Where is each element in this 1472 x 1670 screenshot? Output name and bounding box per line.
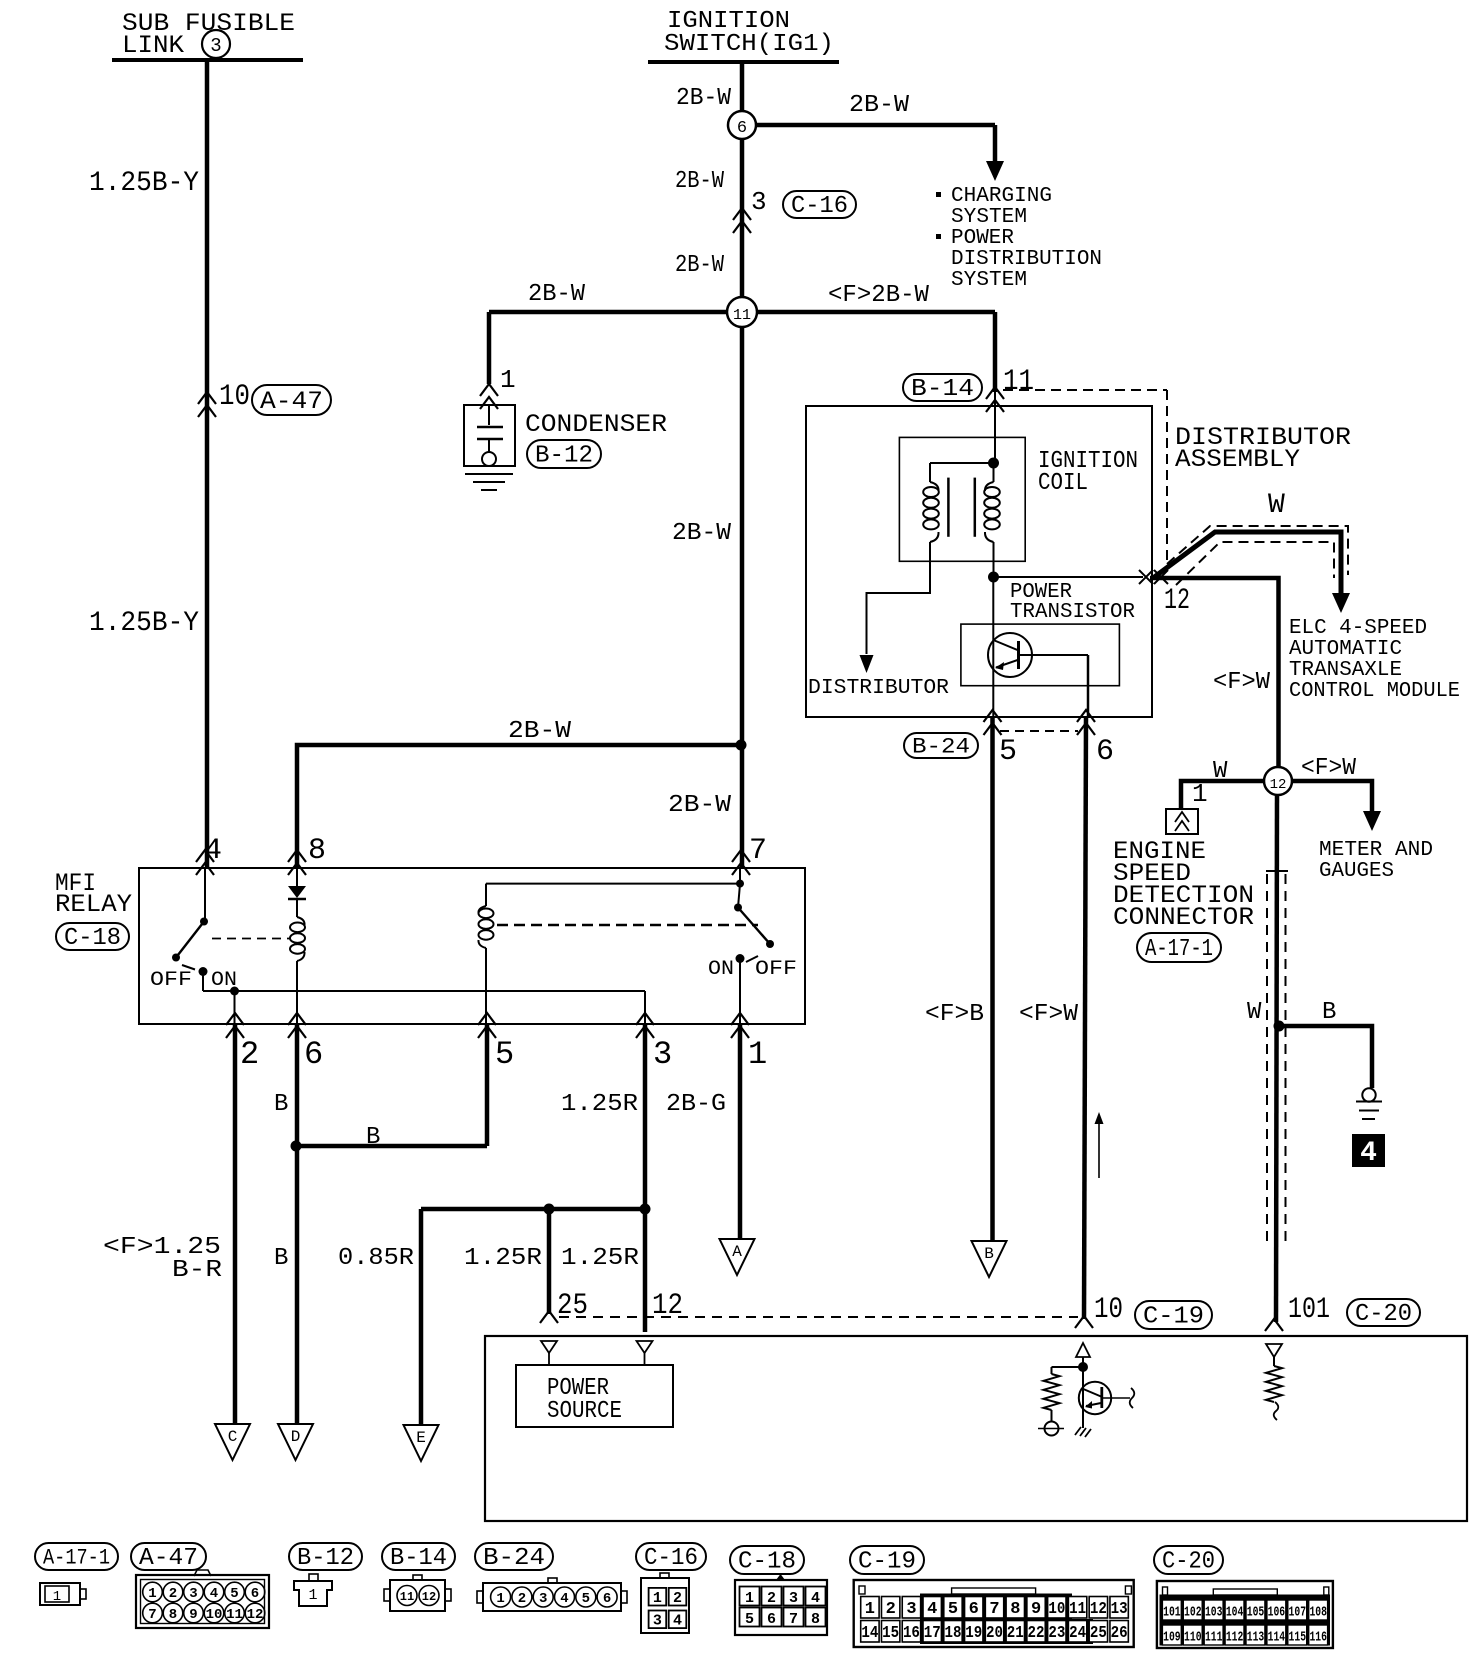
svg-text:6: 6 [969,1600,979,1619]
svg-text:7: 7 [989,1600,999,1619]
svg-text:5: 5 [948,1600,958,1619]
svg-text:12: 12 [1164,584,1190,618]
svg-text:8: 8 [1010,1600,1020,1619]
wire 2B-W branch from ignition wire to relay pin 8 [736,740,747,751]
wire 1.25B-Y from sub fusible link to MFI relay pin 4 [205,60,210,868]
ECU dashed boundary line [559,1316,1078,1318]
svg-text:106: 106 [1268,1605,1286,1621]
ECU box [485,1336,1467,1521]
svg-text:B-14: B-14 [911,376,974,403]
svg-text:METER AND: METER AND [1319,839,1433,862]
svg-text:1: 1 [53,1589,61,1605]
svg-text:B: B [274,1245,288,1272]
svg-text:C-18: C-18 [738,1549,796,1576]
svg-text:W: W [1268,490,1285,521]
svg-text:18: 18 [944,1624,961,1643]
svg-text:7: 7 [749,834,767,868]
svg-text:4: 4 [811,1590,820,1607]
svg-text:TRANSISTOR: TRANSISTOR [1010,601,1135,624]
ECU input connector marks above power source [541,1341,557,1353]
svg-text:6: 6 [603,1591,611,1607]
svg-text:AUTOMATIC: AUTOMATIC [1289,638,1402,661]
power feed bar: IGNITION SWITCH (IG1) [648,60,839,64]
svg-text:1: 1 [865,1600,875,1619]
wire 0.85R branch to ground E [421,1207,645,1212]
svg-text:11: 11 [733,307,751,324]
svg-text:2B-W: 2B-W [668,792,732,819]
distributor rotor arrow [860,655,874,673]
svg-text:6: 6 [304,1036,323,1073]
wire 2B-W from ignition switch down to MFI relay pin 7 [740,62,745,868]
svg-text:113: 113 [1247,1630,1265,1646]
svg-text:26: 26 [1111,1624,1128,1643]
svg-text:C-20: C-20 [1355,1301,1412,1328]
svg-text:5: 5 [999,735,1017,769]
branch B wire to ground 4 [1274,1021,1285,1032]
svg-text:2: 2 [673,1590,682,1607]
relay coil K2 [486,883,740,885]
inline connector pin 10 (A-47) on 1.25B-Y wire [198,392,216,404]
svg-text:12: 12 [247,1607,264,1623]
svg-text:OFF: OFF [755,958,797,981]
svg-text:1: 1 [653,1590,662,1607]
wire 2B-W to distributor assembly pin 11 (B-14) [993,312,998,392]
node: coil secondary to power transistor and pin 12 [988,572,999,583]
svg-text:15: 15 [882,1624,899,1643]
svg-text:B: B [274,1091,288,1118]
resistor R1 in ECU [1044,1374,1060,1410]
svg-text:2B-W: 2B-W [528,281,586,308]
svg-text:W: W [1247,999,1262,1026]
svg-text:2: 2 [240,1036,259,1073]
svg-text:ON: ON [708,958,734,981]
svg-text:A-47: A-47 [260,387,323,416]
svg-text:4: 4 [210,1586,218,1602]
note: charging system / power distribution system [936,192,941,197]
svg-text:102: 102 [1184,1605,1202,1621]
svg-text:2B-W: 2B-W [676,85,732,112]
svg-text:3: 3 [539,1591,547,1607]
svg-text:111: 111 [1205,1630,1223,1646]
svg-text:3: 3 [653,1036,672,1073]
svg-text:DISTRIBUTOR: DISTRIBUTOR [808,677,949,700]
branch <F>W to meter and gauges [1292,781,1372,812]
svg-text:2B-W: 2B-W [675,252,725,279]
wire W from junction 12 down to C-19 pin 10 -- wait this is pin 101 line [1276,795,1277,1322]
svg-text:21: 21 [1007,1624,1024,1643]
wire <F>W from pin 12 down to junction 12 [1150,578,1279,770]
connector face B-12 [289,1543,362,1570]
svg-text:11: 11 [1003,365,1034,399]
wire B from pin 5 joining pin 6 wire [485,1024,490,1146]
svg-text:0.85R: 0.85R [338,1245,414,1272]
wire W from pin 12 to ELC module [1153,532,1341,594]
svg-text:110: 110 [1184,1630,1202,1646]
ignition coil core [947,478,950,537]
wire B from pin 6 to ground D [295,1024,300,1424]
svg-text:5: 5 [230,1586,238,1602]
svg-text:2B-W: 2B-W [675,168,725,195]
svg-text:6: 6 [767,1611,776,1628]
power transistor Q1 [961,624,1120,686]
transistor Q2 in ECU [1082,1367,1084,1428]
svg-text:101: 101 [1163,1605,1181,1621]
svg-text:2B-W: 2B-W [508,718,572,745]
svg-text:20: 20 [986,1624,1003,1643]
svg-text:<F>W: <F>W [1019,1001,1079,1028]
engine speed detection connector (A-17-1) [1166,809,1198,834]
wire from SW1 ON contact to pins 2 and 3 [202,972,204,992]
ground symbol on B wire [1362,1088,1375,1101]
svg-text:OFF: OFF [150,969,192,992]
svg-text:6: 6 [1096,735,1114,769]
svg-text:<F>B: <F>B [925,1001,984,1028]
svg-text:6: 6 [251,1586,259,1602]
svg-text:CONTROL MODULE: CONTROL MODULE [1289,680,1460,703]
power feed bar: SUB FUSIBLE LINK 3 [112,58,303,62]
svg-text:SWITCH(IG1): SWITCH(IG1) [664,31,834,58]
svg-text:9: 9 [189,1607,197,1623]
ignition coil primary winding [930,462,994,464]
svg-text:B-R: B-R [172,1257,222,1284]
distributor assembly dashed boundary [1003,389,1167,391]
svg-text:1: 1 [748,1036,767,1073]
svg-text:11: 11 [400,1590,414,1604]
svg-text:115: 115 [1289,1630,1307,1646]
svg-text:E: E [416,1429,426,1447]
svg-text:2: 2 [518,1591,526,1607]
svg-text:8: 8 [169,1607,177,1623]
MFI relay pin 4 [196,850,214,862]
svg-text:SYSTEM: SYSTEM [951,206,1027,229]
svg-text:CHARGING: CHARGING [951,185,1052,208]
dashed harness channel around W wire [1266,870,1288,872]
svg-text:17: 17 [924,1624,941,1643]
wire <F>B from distributor pin 5 to ground B [990,717,995,1241]
svg-text:1.25R: 1.25R [561,1091,638,1118]
svg-text:1: 1 [500,365,516,395]
svg-text:C-20: C-20 [1162,1549,1215,1576]
relay armature dashed link right [497,924,758,926]
svg-text:2B-W: 2B-W [849,92,910,119]
svg-text:12: 12 [422,1590,436,1604]
svg-text:A-17-1: A-17-1 [1145,936,1213,963]
svg-text:3: 3 [789,1590,798,1607]
svg-text:1.25R: 1.25R [561,1245,639,1272]
svg-text:<F>W: <F>W [1213,669,1271,696]
svg-text:10: 10 [219,380,250,414]
svg-text:116: 116 [1309,1630,1327,1646]
ground under condenser [465,473,513,475]
base stub with curl [1102,1397,1130,1399]
wire <F>1.25B-R from pin 2 to ground C [233,1024,238,1424]
svg-text:SOURCE: SOURCE [547,1398,622,1425]
MFI relay pin 7 [732,850,750,862]
svg-text:3: 3 [210,35,221,57]
svg-text:DISTRIBUTION: DISTRIBUTION [951,248,1102,271]
svg-text:2: 2 [169,1586,177,1602]
svg-text:5: 5 [745,1611,754,1628]
svg-text:22: 22 [1028,1624,1045,1643]
svg-text:2: 2 [886,1600,896,1619]
svg-text:10: 10 [206,1607,223,1623]
connector face A-47 [131,1543,206,1570]
svg-text:10: 10 [1048,1600,1065,1619]
wire 2B-W branch to charging system [756,123,995,128]
svg-text:16: 16 [903,1624,920,1643]
relay armature dashed link left [212,938,290,940]
svg-text:POWER: POWER [951,227,1014,250]
MFI relay bottom pins 2 6 5 3 1 [226,1013,244,1025]
off-page reference 4 (black square) [1352,1134,1385,1167]
svg-text:B-12: B-12 [297,1545,354,1572]
svg-text:C-16: C-16 [644,1545,698,1572]
ECU internal circuit at pin 10: pull-up and transistor Q2 [1076,1343,1090,1357]
svg-text:COIL: COIL [1038,470,1088,497]
ECU internal resistor at pin 101 [1266,1344,1282,1357]
svg-text:1.25R: 1.25R [464,1245,542,1272]
svg-text:11: 11 [1069,1600,1086,1619]
power transistor base wire to pin 6 [1019,654,1089,656]
svg-text:CONDENSER: CONDENSER [525,410,667,439]
svg-text:2B-W: 2B-W [672,520,732,547]
svg-text:C-18: C-18 [64,925,121,952]
svg-text:105: 105 [1247,1605,1265,1621]
svg-text:B: B [366,1124,380,1151]
svg-text:A: A [732,1243,742,1261]
svg-text:4: 4 [927,1600,937,1619]
svg-text:3: 3 [189,1586,197,1602]
svg-text:23: 23 [1048,1624,1065,1643]
ground triangle D [278,1424,313,1460]
connector face B-14 [382,1543,455,1570]
svg-text:10: 10 [1094,1293,1123,1327]
svg-text:2: 2 [767,1590,776,1607]
svg-text:A-17-1: A-17-1 [43,1546,110,1571]
distributor inner unit box B-14/B-24 [806,406,1152,717]
ignition coil secondary winding [988,458,999,469]
connector face C-18 [730,1546,804,1574]
junction 12 [1264,767,1292,795]
svg-text:11: 11 [226,1607,243,1623]
svg-text:D: D [291,1428,301,1446]
svg-text:4: 4 [560,1591,568,1607]
svg-text:5: 5 [582,1591,590,1607]
ECU pin 101 (C-20) [1265,1319,1283,1331]
connector face C-20 [1154,1546,1223,1574]
svg-text:103: 103 [1205,1605,1223,1621]
wire 1.25R from pin 3 to ECU pin 12 [643,1024,648,1332]
wire to condenser pin 1 [487,312,492,384]
MFI relay pin 8 [288,850,306,862]
B-24 connector pins 5 and 6 leaving distributor unit [984,710,1002,722]
svg-text:8: 8 [308,834,326,868]
svg-text:3: 3 [751,187,767,217]
svg-text:<F>W: <F>W [1301,755,1357,782]
svg-text:14: 14 [861,1624,878,1643]
svg-text:24: 24 [1069,1624,1086,1643]
svg-text:CONNECTOR: CONNECTOR [1113,903,1254,932]
svg-text:A-47: A-47 [139,1545,198,1572]
svg-text:C-19: C-19 [858,1549,916,1576]
distributor pin 12 crossing marks [1139,570,1153,584]
ground triangle A [720,1239,755,1275]
svg-text:B-12: B-12 [535,443,593,470]
svg-text:4: 4 [204,834,222,868]
svg-text:1.25B-Y: 1.25B-Y [89,168,199,199]
MFI relay box (C-18) [139,868,805,1024]
ground triangle C [215,1424,250,1460]
wire <F>W from distributor pin 6 to ECU pin 10 [1084,717,1086,1319]
svg-text:107: 107 [1289,1605,1307,1621]
svg-text:1: 1 [308,1587,317,1604]
svg-text:ELC 4-SPEED: ELC 4-SPEED [1289,617,1427,640]
svg-text:2B-G: 2B-G [666,1091,726,1118]
svg-text:101: 101 [1288,1293,1330,1327]
wire from coil primary to distributor rotor [867,561,931,654]
svg-text:12: 12 [1090,1600,1107,1619]
svg-text:4: 4 [1360,1138,1377,1169]
svg-text:104: 104 [1226,1605,1244,1621]
svg-text:19: 19 [965,1624,982,1643]
svg-text:3: 3 [653,1613,662,1630]
svg-text:C: C [228,1428,238,1446]
relay switch SW1 (left, OFF/ON) [204,868,206,921]
svg-text:B-14: B-14 [390,1545,447,1572]
svg-text:7: 7 [789,1611,798,1628]
ground hatch under Q2 [1075,1427,1091,1437]
svg-text:C-19: C-19 [1143,1304,1204,1331]
svg-text:1: 1 [148,1586,156,1602]
svg-text:B: B [984,1245,994,1263]
svg-text:B-24: B-24 [912,735,970,760]
ground triangle B [972,1241,1007,1277]
junction 6 on ignition wire [728,111,756,139]
relay switch SW2 (right, ON/OFF) [739,868,741,884]
direction arrow on <F>W wire [1098,1122,1100,1178]
svg-text:B: B [1322,999,1336,1026]
wire 2B-G from pin 1 to ground A [738,1024,743,1239]
svg-text:B-24: B-24 [483,1545,545,1572]
connector face A-17-1 [35,1543,118,1570]
svg-text:9: 9 [1031,1600,1041,1619]
svg-text:1.25B-Y: 1.25B-Y [89,608,199,639]
svg-text:<F>2B-W: <F>2B-W [828,282,930,309]
svg-text:25: 25 [1090,1624,1107,1643]
svg-text:1: 1 [745,1590,754,1607]
terminal circle under resistor R1 [1045,1422,1059,1436]
ECU pin 10 (C-19) [1075,1316,1093,1328]
relay coil K1 with suppression diode [296,868,298,886]
svg-text:109: 109 [1163,1630,1181,1646]
svg-text:3: 3 [906,1600,916,1619]
wire 1.25R to ECU pin 25 [547,1209,552,1314]
svg-text:GAUGES: GAUGES [1319,860,1394,883]
connector face B-24 [475,1543,553,1570]
svg-text:1: 1 [1192,779,1208,809]
connector face C-16 [636,1543,706,1570]
svg-text:8: 8 [811,1611,820,1628]
ignition coil T1 [899,437,1025,561]
svg-text:13: 13 [1111,1600,1128,1619]
svg-text:108: 108 [1309,1605,1327,1621]
svg-text:5: 5 [495,1036,514,1073]
junction 11 on ignition wire [489,310,742,315]
svg-text:7: 7 [148,1607,156,1623]
svg-text:112: 112 [1226,1630,1244,1646]
POWER SOURCE block in ECU [516,1365,673,1427]
svg-text:12: 12 [1270,777,1287,793]
ground triangle E [404,1425,439,1461]
svg-text:LINK: LINK [122,31,184,60]
svg-text:6: 6 [737,119,747,138]
svg-text:TRANSAXLE: TRANSAXLE [1289,659,1402,682]
svg-text:RELAY: RELAY [55,890,132,919]
connector face C-19 [850,1546,924,1574]
inline connector pin 3 (C-16) on ignition wire [733,208,751,220]
svg-text:1: 1 [496,1591,504,1607]
svg-text:114: 114 [1268,1630,1286,1646]
svg-text:SYSTEM: SYSTEM [951,269,1027,292]
svg-text:C-16: C-16 [791,193,848,220]
svg-text:4: 4 [673,1613,682,1630]
svg-text:ASSEMBLY: ASSEMBLY [1175,445,1300,474]
condenser C1 (B-12) [464,405,515,466]
branch W to engine speed detection connector [1181,781,1264,809]
